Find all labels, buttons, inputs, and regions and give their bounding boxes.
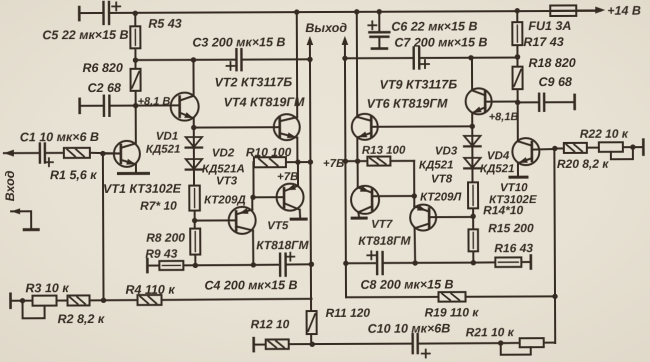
svg-text:C6 22 мк×15 В: C6 22 мк×15 В (391, 19, 477, 33)
svg-text:+7В: +7В (277, 171, 298, 183)
svg-text:FU1 3А: FU1 3А (528, 19, 571, 33)
svg-text:C8 200 мк×15 В: C8 200 мк×15 В (360, 277, 453, 291)
svg-text:VT4 КТ819ГМ: VT4 КТ819ГМ (224, 95, 305, 109)
svg-text:VD3: VD3 (435, 145, 458, 157)
svg-text:R18 820: R18 820 (528, 56, 575, 70)
svg-text:VT2 КТ3117Б: VT2 КТ3117Б (215, 75, 293, 89)
svg-text:C2 68: C2 68 (88, 81, 121, 95)
svg-text:C5 22 мк×15 В: C5 22 мк×15 В (42, 28, 128, 42)
svg-text:VD4: VD4 (487, 150, 510, 162)
svg-text:R11 120: R11 120 (326, 306, 371, 320)
svg-text:Вход: Вход (3, 170, 17, 201)
svg-text:+14 В: +14 В (607, 4, 641, 18)
svg-text:R15 200: R15 200 (488, 221, 534, 235)
svg-text:R3 10 к: R3 10 к (25, 281, 69, 295)
svg-text:C7 200 мк×15 В: C7 200 мк×15 В (394, 35, 487, 49)
svg-text:R7* 10: R7* 10 (140, 199, 177, 213)
svg-text:VT9 КТ3117Б: VT9 КТ3117Б (380, 77, 458, 91)
svg-text:+8,1 В: +8,1 В (138, 96, 171, 108)
svg-text:КД521: КД521 (419, 159, 454, 171)
svg-text:R6 820: R6 820 (82, 61, 122, 75)
svg-text:R16 43: R16 43 (494, 241, 533, 255)
svg-text:R1 5,6 к: R1 5,6 к (50, 168, 97, 182)
svg-text:R20 8,2 к: R20 8,2 к (557, 157, 609, 171)
svg-text:R2 8,2 к: R2 8,2 к (58, 312, 105, 326)
svg-text:+8,1В: +8,1В (489, 111, 519, 123)
svg-text:VD2: VD2 (212, 147, 235, 159)
svg-text:R14*10: R14*10 (483, 203, 523, 217)
svg-text:КТ818ГМ: КТ818ГМ (256, 238, 309, 252)
svg-text:VT6 КТ819ГМ: VT6 КТ819ГМ (367, 96, 448, 110)
svg-text:VT7: VT7 (371, 219, 393, 231)
svg-text:R10 100: R10 100 (246, 145, 292, 159)
svg-text:R8 200: R8 200 (146, 231, 185, 245)
svg-text:R9 43: R9 43 (145, 247, 177, 261)
svg-text:+7В: +7В (323, 158, 344, 170)
svg-text:VT5: VT5 (267, 220, 289, 232)
svg-text:R4 110 к: R4 110 к (125, 283, 175, 297)
svg-text:VT1 КТ3102Е: VT1 КТ3102Е (103, 182, 182, 196)
svg-text:C10 10 мк×6В: C10 10 мк×6В (368, 321, 451, 335)
svg-text:VT8: VT8 (431, 173, 453, 185)
svg-text:КД521: КД521 (480, 163, 515, 175)
svg-text:C4 200 мк×15 В: C4 200 мк×15 В (204, 278, 297, 292)
svg-text:КД521А: КД521А (202, 163, 245, 175)
svg-text:R22 10 к: R22 10 к (580, 127, 629, 141)
svg-text:R17 43: R17 43 (523, 35, 563, 49)
svg-text:VT10: VT10 (500, 182, 528, 194)
svg-text:R12 10: R12 10 (251, 317, 290, 331)
svg-text:R13 100: R13 100 (362, 145, 406, 157)
svg-text:R19 110 к: R19 110 к (425, 305, 480, 319)
svg-text:КД521: КД521 (146, 144, 181, 156)
svg-text:КТ818ГМ: КТ818ГМ (358, 234, 411, 248)
svg-text:C3 200 мк×15 В: C3 200 мк×15 В (192, 35, 285, 49)
svg-text:C9 68: C9 68 (539, 75, 572, 89)
svg-text:R5 43: R5 43 (148, 17, 181, 31)
svg-text:R21 10 к: R21 10 к (466, 325, 515, 339)
svg-text:Выход: Выход (305, 21, 347, 35)
svg-text:VD1: VD1 (156, 131, 178, 143)
svg-text:КТ209Д: КТ209Д (204, 194, 246, 206)
svg-text:КТ209Л: КТ209Л (420, 191, 462, 203)
svg-text:C1 10 мк×6 В: C1 10 мк×6 В (20, 130, 99, 144)
svg-text:VT3: VT3 (216, 175, 238, 187)
